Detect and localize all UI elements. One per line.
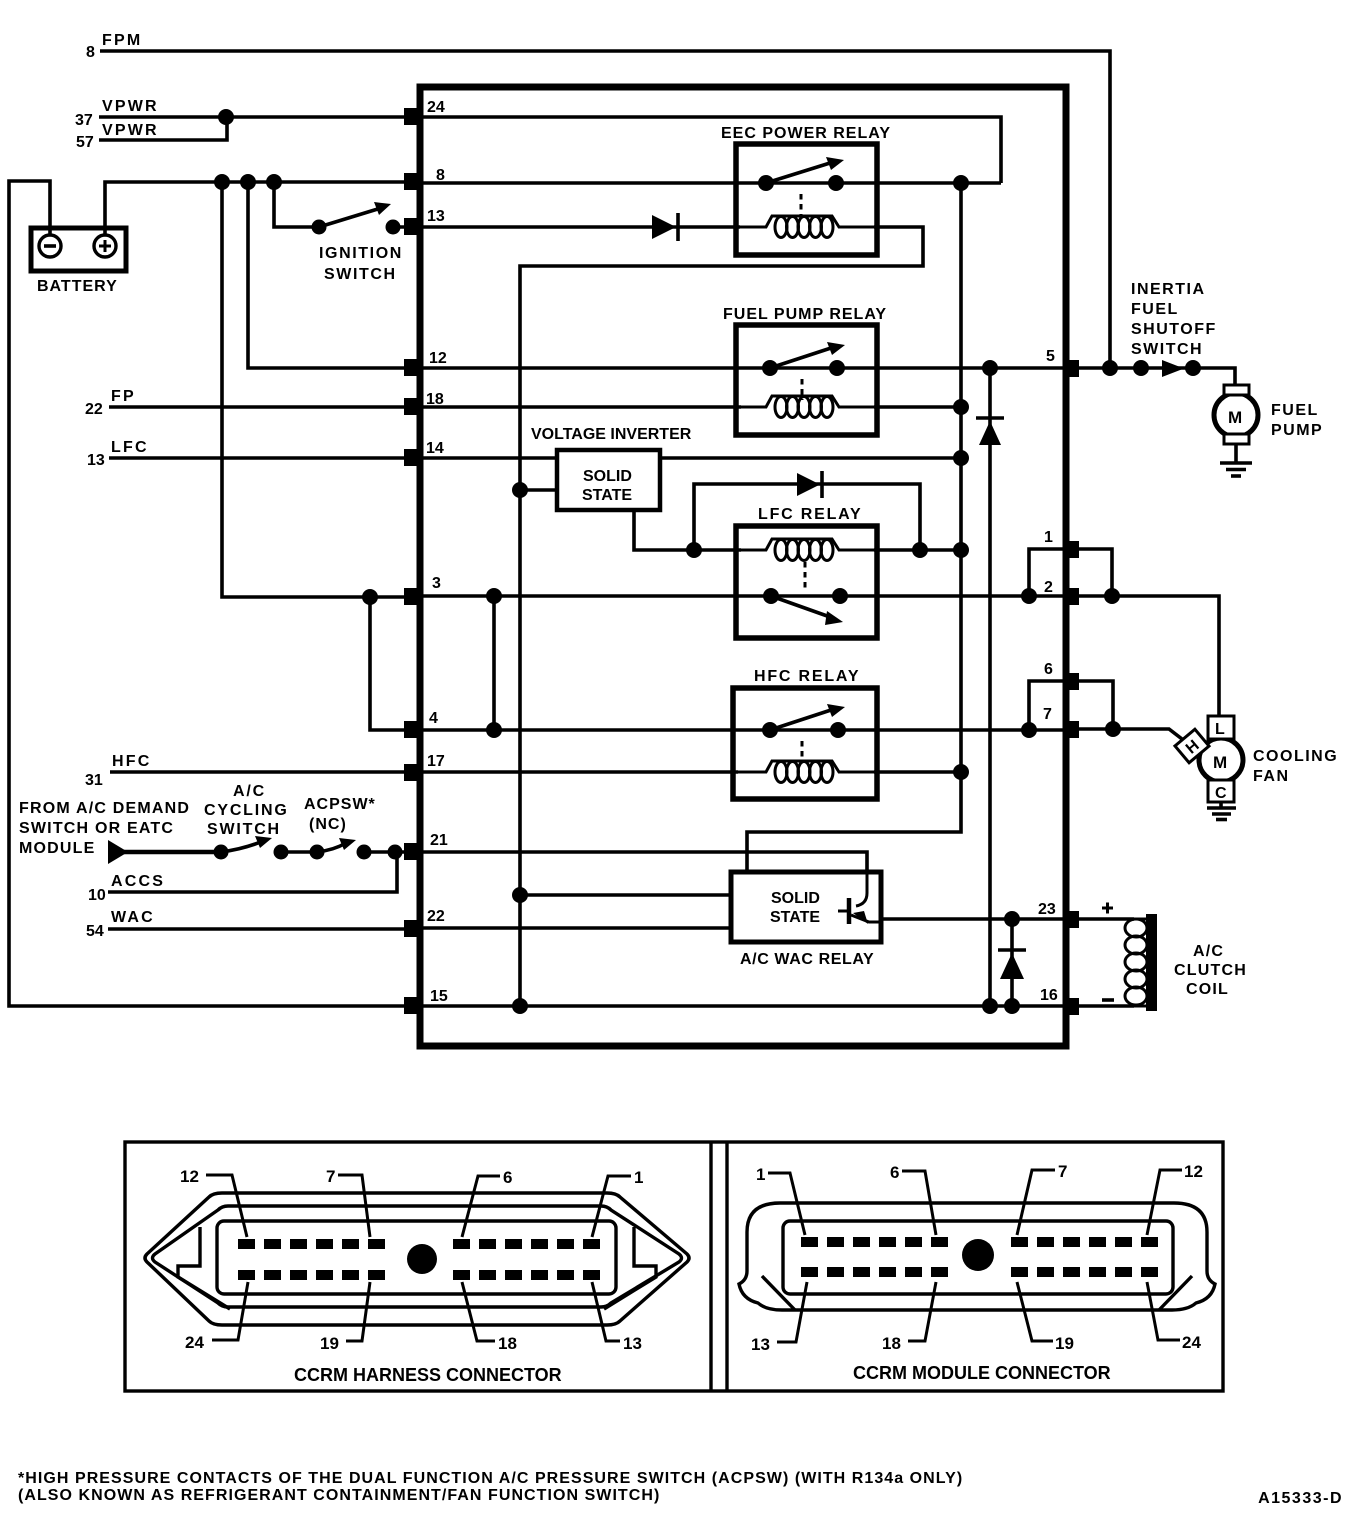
node B+ junction B — [240, 174, 256, 190]
diode D4 clamp on pin 23 wire — [998, 950, 1026, 979]
wire B+ to pin 3 — [222, 182, 412, 597]
pin 14 terminal — [404, 449, 420, 466]
svg-text:13: 13 — [87, 452, 105, 469]
wire inverter output to LFC coil — [634, 509, 741, 550]
wire pin 7 to cooling fan H — [1079, 729, 1182, 739]
connector J2 pin 7 label — [1017, 1162, 1067, 1235]
svg-text:FROM A/C DEMAND: FROM A/C DEMAND — [19, 800, 190, 817]
svg-text:STATE: STATE — [770, 909, 820, 926]
svg-text:L: L — [1215, 721, 1225, 738]
node pin1/pin2 junction — [1104, 588, 1120, 604]
svg-text:A/C: A/C — [233, 783, 266, 800]
svg-text:16: 16 — [1040, 987, 1058, 1004]
pin 2 terminal — [1063, 588, 1079, 605]
node ACCS junction — [388, 845, 403, 860]
svg-text:LFC RELAY: LFC RELAY — [758, 506, 863, 523]
svg-text:COOLING: COOLING — [1253, 748, 1338, 765]
svg-text:WAC: WAC — [111, 909, 155, 926]
label plus — [1102, 903, 1113, 914]
relay K4 HFC relay — [733, 668, 877, 799]
connector J2 pin 13 label — [751, 1282, 807, 1354]
svg-text:19: 19 — [1055, 1334, 1074, 1353]
svg-text:31: 31 — [85, 772, 103, 789]
pin 4 terminal — [404, 721, 420, 738]
svg-text:FP: FP — [111, 388, 136, 405]
switch S4 inertia fuel shutoff switch — [1131, 281, 1217, 377]
node bus to pin 14 wire — [953, 450, 969, 466]
node pin6 bracket junction — [1021, 722, 1037, 738]
connector J1 pin 19 label — [320, 1282, 370, 1353]
wire pin 23 to A/C clutch coil — [1079, 917, 1134, 921]
pin 16 terminal — [1063, 998, 1079, 1015]
pin 15 terminal — [404, 997, 420, 1014]
svg-text:19: 19 — [320, 1334, 339, 1353]
svg-text:HFC RELAY: HFC RELAY — [754, 668, 860, 685]
pin 21 terminal — [404, 843, 420, 860]
wire battery positive bus to pin 8 — [105, 182, 412, 235]
connector J1 pin 18 label — [462, 1282, 517, 1353]
node ground bus at WAC relay — [512, 887, 528, 903]
CCRM module box — [420, 87, 1066, 1046]
wire HFC coil to bus — [874, 770, 961, 774]
svg-text:SHUTOFF: SHUTOFF — [1131, 321, 1217, 338]
svg-text:LFC: LFC — [111, 439, 149, 456]
svg-text:18: 18 — [498, 1334, 517, 1353]
wire B+ to pin 12 — [248, 182, 412, 368]
svg-text:7: 7 — [1043, 706, 1052, 723]
wire pin 6 external bracket — [1079, 681, 1113, 729]
wire pin 18 internal to FP coil — [423, 405, 741, 409]
svg-text:C: C — [1215, 785, 1227, 802]
svg-text:24: 24 — [1182, 1333, 1201, 1352]
wire VPWR pin 37 — [75, 98, 412, 129]
node EEC output junction — [953, 175, 969, 191]
wire WAC input pin 54 — [86, 909, 412, 940]
svg-text:COIL: COIL — [1186, 981, 1229, 998]
connector J2 pin 18 label — [882, 1282, 936, 1353]
svg-text:57: 57 — [76, 134, 94, 151]
A/C demand feed arrow — [108, 840, 128, 864]
connector panel divider — [711, 1142, 727, 1391]
diode D1 on pin 13 wire — [652, 213, 678, 241]
wire B+ to ignition switch — [274, 182, 319, 227]
wire to pin 21 — [364, 850, 412, 854]
label minus — [1102, 998, 1114, 1002]
svg-text:EEC POWER RELAY: EEC POWER RELAY — [721, 125, 891, 142]
connector J1 pin 13 label — [592, 1282, 642, 1353]
svg-text:STATE: STATE — [582, 487, 632, 504]
label FROM A/C DEMAND SWITCH OR EATC MODULE — [19, 800, 190, 857]
svg-text:10: 10 — [88, 887, 106, 904]
svg-text:6: 6 — [503, 1168, 512, 1187]
wire pin 21 internal to WAC transistor — [423, 852, 867, 872]
svg-text:17: 17 — [427, 753, 445, 770]
connector J2 CCRM module connector outline — [739, 1203, 1215, 1310]
connector J1 pin 7 label — [326, 1167, 370, 1237]
svg-text:CLUTCH: CLUTCH — [1174, 962, 1247, 979]
wire FPM net (pin 8 external) — [86, 32, 1110, 368]
svg-text:SOLID: SOLID — [771, 890, 820, 907]
svg-text:PUMP: PUMP — [1271, 422, 1323, 439]
wire FP coil to bus — [874, 405, 961, 409]
svg-text:FUEL: FUEL — [1271, 402, 1319, 419]
node bus to FP coil — [953, 399, 969, 415]
connector J2 pin 12 label — [1147, 1162, 1203, 1235]
wire battery negative to pin 15 — [9, 181, 412, 1006]
motor M2 cooling fan — [1175, 716, 1338, 802]
wire pin 12 to pin 5 through FP relay contacts — [423, 366, 1063, 370]
wire pin 3 to pin 2 through LFC contacts — [423, 594, 1063, 598]
ground cooling fan — [1207, 802, 1236, 820]
connector J2 pin rows — [801, 1237, 1158, 1277]
svg-text:VOLTAGE INVERTER: VOLTAGE INVERTER — [531, 426, 692, 443]
svg-text:6: 6 — [1044, 661, 1053, 678]
svg-text:1: 1 — [756, 1165, 765, 1184]
diode D3 clamp to pin 5 wire — [976, 418, 1004, 445]
svg-text:7: 7 — [1058, 1162, 1067, 1181]
connector J1 pin 24 label — [185, 1282, 248, 1352]
wire pin 16 to A/C clutch coil — [1079, 1004, 1134, 1008]
wire pin 4 to pin 7 through HFC contacts — [423, 728, 1063, 732]
svg-text:2: 2 — [1044, 579, 1053, 596]
svg-text:1: 1 — [1044, 529, 1053, 546]
svg-text:FUEL PUMP RELAY: FUEL PUMP RELAY — [723, 306, 887, 323]
pin 23 terminal — [1063, 911, 1079, 928]
pin 17 terminal — [404, 764, 420, 781]
svg-text:1: 1 — [634, 1168, 643, 1187]
wire pin 24 internal loop — [423, 117, 1001, 183]
pin 18 terminal — [404, 398, 420, 415]
wire ground bus branch to WAC module — [520, 893, 733, 897]
wire between switches — [281, 850, 317, 854]
svg-text:6: 6 — [890, 1163, 899, 1182]
node diode2 bottom junction — [1004, 998, 1020, 1014]
svg-text:HFC: HFC — [112, 753, 151, 770]
switch S2 A/C cycling switch — [204, 783, 289, 860]
relay K3 LFC relay — [736, 506, 877, 638]
svg-text:ACCS: ACCS — [111, 873, 165, 890]
svg-text:54: 54 — [86, 923, 104, 940]
node pin4 wire jumper junction — [486, 722, 502, 738]
relay K1 EEC power relay — [721, 125, 891, 255]
wire ACCS input pin 10 — [88, 852, 397, 904]
wire jumper pin3 wire to pin4 wire — [492, 596, 496, 730]
pin 7 terminal — [1063, 721, 1079, 738]
wire pin 1 internal bracket — [1029, 549, 1063, 596]
wire A/C demand line — [124, 850, 218, 855]
connector J2 pin 1 label — [756, 1165, 805, 1235]
wire pin 5 to fuel pump — [1079, 368, 1235, 386]
pin 22 terminal — [404, 920, 420, 937]
node B+ junction C — [266, 174, 282, 190]
svg-text:FAN: FAN — [1253, 768, 1290, 785]
wire pin 17 internal to HFC coil — [423, 770, 738, 774]
connector J1 polarizing hole — [407, 1244, 437, 1274]
wire ground bus to inverter input — [520, 488, 557, 492]
svg-text:(ALSO KNOWN AS REFRIGERANT CON: (ALSO KNOWN AS REFRIGERANT CONTAINMENT/F… — [18, 1487, 660, 1504]
svg-text:M: M — [1228, 408, 1242, 427]
battery BAT1 — [31, 228, 126, 295]
diode D2 across LFC coil — [694, 471, 920, 550]
node bus to HFC coil — [953, 764, 969, 780]
wire pin 14 internal — [423, 456, 961, 460]
switch S1 ignition switch — [312, 202, 413, 283]
pin 3 terminal — [404, 588, 420, 605]
pin 13 terminal — [404, 218, 420, 235]
wire EEC coil return to ground bus — [520, 227, 923, 1006]
svg-text:CCRM MODULE CONNECTOR: CCRM MODULE CONNECTOR — [853, 1363, 1111, 1383]
svg-text:ACPSW*: ACPSW* — [304, 796, 376, 813]
wire pin 13 internal — [423, 225, 740, 229]
connector J1 pin rows — [238, 1239, 600, 1280]
pin number labels right side — [1038, 348, 1058, 1004]
relay K2 fuel pump relay — [723, 306, 887, 435]
svg-text:*HIGH PRESSURE CONTACTS OF THE: *HIGH PRESSURE CONTACTS OF THE DUAL FUNC… — [18, 1470, 963, 1487]
pin number labels left side — [426, 99, 448, 1005]
motor M1 fuel pump — [1214, 385, 1323, 444]
svg-text:12: 12 — [1184, 1162, 1203, 1181]
svg-text:SWITCH: SWITCH — [207, 821, 281, 838]
connector J1 pin 6 label — [462, 1168, 512, 1237]
node pin3/pin4 branch junction — [362, 589, 378, 605]
wire pin 22 internal to WAC module — [423, 926, 733, 930]
svg-text:7: 7 — [326, 1167, 335, 1186]
connector J2 pin 24 label — [1147, 1282, 1201, 1352]
wire LFC coil to bus — [874, 548, 961, 552]
svg-text:4: 4 — [429, 710, 438, 727]
svg-text:SWITCH: SWITCH — [1131, 341, 1203, 358]
solid state module U2 A/C WAC relay — [731, 872, 881, 968]
svg-text:18: 18 — [882, 1334, 901, 1353]
svg-text:MODULE: MODULE — [19, 840, 96, 857]
connector J1 CCRM harness connector outline — [145, 1193, 689, 1325]
svg-text:VPWR: VPWR — [102, 122, 159, 139]
pin 12 terminal — [404, 359, 420, 376]
svg-text:13: 13 — [623, 1334, 642, 1353]
connector J1 pin 12 label — [180, 1167, 247, 1237]
connector J2 polarizing hole — [962, 1239, 994, 1271]
svg-text:CYCLING: CYCLING — [204, 802, 289, 819]
svg-text:FPM: FPM — [102, 32, 142, 49]
svg-text:8: 8 — [86, 44, 95, 61]
svg-text:FUEL: FUEL — [1131, 301, 1179, 318]
svg-text:VPWR: VPWR — [102, 98, 159, 115]
svg-text:IGNITION: IGNITION — [319, 245, 403, 262]
wire HFC input pin 31 — [85, 753, 412, 789]
svg-text:22: 22 — [427, 908, 445, 925]
pin 1 terminal — [1063, 541, 1079, 558]
svg-text:23: 23 — [1038, 901, 1056, 918]
svg-text:12: 12 — [180, 1167, 199, 1186]
node ground bus at pin15 wire — [512, 998, 528, 1014]
pin 5 terminal — [1063, 360, 1079, 377]
node diode1 bottom junction — [982, 998, 998, 1014]
pin 6 terminal — [1063, 673, 1079, 690]
wire pin 1 external bracket — [1079, 549, 1112, 596]
node VPWR junction — [218, 109, 234, 125]
node pin6/pin7 junction — [1105, 721, 1121, 737]
node LFC coil drive junction — [686, 542, 702, 558]
svg-text:SWITCH: SWITCH — [324, 266, 397, 283]
svg-text:13: 13 — [427, 208, 445, 225]
inductor L1 A/C clutch coil — [1125, 914, 1247, 1011]
svg-text:CCRM HARNESS CONNECTOR: CCRM HARNESS CONNECTOR — [294, 1365, 562, 1385]
node B+ junction A — [214, 174, 230, 190]
node clamp diode junction on pin 23 wire — [1004, 911, 1020, 927]
wire FP input pin 22 — [85, 388, 412, 418]
svg-text:14: 14 — [426, 440, 444, 457]
node clamp junction on pin 5 wire — [982, 360, 998, 376]
wire LFC input pin 13 — [87, 439, 412, 469]
wire pin 2 to cooling fan L — [1079, 596, 1219, 717]
svg-text:15: 15 — [430, 988, 448, 1005]
svg-text:24: 24 — [427, 99, 445, 116]
svg-text:SWITCH OR EATC: SWITCH OR EATC — [19, 820, 174, 837]
svg-text:21: 21 — [430, 832, 448, 849]
svg-text:5: 5 — [1046, 348, 1055, 365]
svg-text:A15333-D: A15333-D — [1258, 1490, 1343, 1507]
svg-text:SOLID: SOLID — [583, 468, 632, 485]
wire branch to pin 4 — [370, 597, 412, 730]
svg-text:12: 12 — [429, 350, 447, 367]
wire clamp line pin23 to ground — [1010, 919, 1014, 1006]
connector J1 pin 1 label — [592, 1168, 643, 1237]
wire VPWR pin 57 — [76, 117, 227, 151]
connector J2 pin 6 label — [890, 1163, 936, 1235]
svg-text:24: 24 — [185, 1333, 204, 1352]
svg-text:A/C: A/C — [1193, 943, 1224, 960]
connector panel frame — [125, 1142, 1223, 1391]
wire pin 15 to pin 16 ground — [423, 1004, 1063, 1008]
node FPM junction on pin-5 wire — [1102, 360, 1118, 376]
wire clamp line pin5 to ground — [988, 368, 992, 1006]
solid state module U1 voltage inverter — [557, 450, 660, 510]
svg-text:22: 22 — [85, 401, 103, 418]
svg-text:INERTIA: INERTIA — [1131, 281, 1206, 298]
svg-text:(NC): (NC) — [309, 816, 347, 833]
ground fuel pump — [1220, 444, 1252, 476]
switch S3 ACPSW pressure switch — [304, 796, 376, 860]
wire EEC switched output bus — [747, 183, 961, 874]
connector J2 pin 19 label — [1017, 1282, 1074, 1353]
wire pin 6 internal bracket — [1029, 681, 1063, 730]
svg-text:37: 37 — [75, 112, 93, 129]
wire pin 8 internal to EEC relay — [423, 181, 1001, 185]
pin 24 terminal — [404, 108, 420, 125]
svg-text:BATTERY: BATTERY — [37, 278, 118, 295]
node ground bus at voltage inverter — [512, 482, 528, 498]
svg-text:13: 13 — [751, 1335, 770, 1354]
svg-text:3: 3 — [432, 575, 441, 592]
node bus to LFC coil — [953, 542, 969, 558]
node pin3 wire jumper junction — [486, 588, 502, 604]
svg-text:A/C WAC RELAY: A/C WAC RELAY — [740, 951, 874, 968]
svg-text:M: M — [1213, 753, 1227, 772]
node pin1 bracket junction — [1021, 588, 1037, 604]
wire WAC output to pin 23 — [881, 917, 1063, 921]
pin 8 terminal — [404, 173, 420, 190]
node diode return junction — [912, 542, 928, 558]
